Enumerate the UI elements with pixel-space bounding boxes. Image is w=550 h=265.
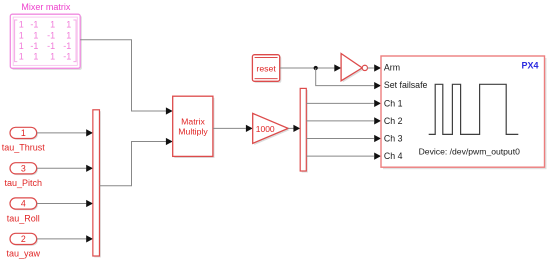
svg-text:Ch 1: Ch 1 bbox=[384, 99, 403, 109]
svg-text:1: 1 bbox=[19, 30, 24, 40]
svg-text:Set failsafe: Set failsafe bbox=[384, 80, 428, 90]
svg-text:1: 1 bbox=[33, 30, 38, 40]
svg-text:Matrix: Matrix bbox=[181, 116, 205, 126]
svg-text:1: 1 bbox=[21, 128, 26, 138]
svg-text:-1: -1 bbox=[30, 20, 38, 30]
svg-text:4: 4 bbox=[21, 199, 26, 209]
svg-text:-1: -1 bbox=[30, 41, 38, 51]
svg-text:PX4: PX4 bbox=[521, 61, 538, 71]
svg-text:tau_Thrust: tau_Thrust bbox=[2, 143, 46, 153]
svg-text:Device: /dev/pwm_output0: Device: /dev/pwm_output0 bbox=[419, 146, 520, 156]
svg-text:-1: -1 bbox=[63, 41, 71, 51]
svg-text:Ch 2: Ch 2 bbox=[384, 116, 403, 126]
svg-text:Multiply: Multiply bbox=[178, 126, 208, 136]
svg-text:tau_Roll: tau_Roll bbox=[7, 213, 40, 223]
svg-text:1: 1 bbox=[50, 20, 55, 30]
svg-text:Arm: Arm bbox=[384, 62, 400, 72]
svg-text:1: 1 bbox=[50, 51, 55, 61]
svg-text:tau_yaw: tau_yaw bbox=[7, 249, 41, 259]
svg-text:1: 1 bbox=[66, 20, 71, 30]
svg-text:1000: 1000 bbox=[256, 124, 275, 134]
svg-text:tau_Pitch: tau_Pitch bbox=[5, 178, 43, 188]
svg-text:1: 1 bbox=[19, 20, 24, 30]
svg-text:1: 1 bbox=[19, 51, 24, 61]
svg-text:reset: reset bbox=[256, 63, 276, 73]
svg-text:Ch 4: Ch 4 bbox=[384, 151, 403, 161]
svg-text:Ch 3: Ch 3 bbox=[384, 134, 403, 144]
svg-text:-1: -1 bbox=[47, 30, 55, 40]
svg-text:3: 3 bbox=[21, 164, 26, 174]
svg-text:-1: -1 bbox=[63, 51, 71, 61]
svg-text:-1: -1 bbox=[47, 41, 55, 51]
svg-text:1: 1 bbox=[19, 41, 24, 51]
svg-text:1: 1 bbox=[66, 30, 71, 40]
svg-text:2: 2 bbox=[21, 234, 26, 244]
svg-text:1: 1 bbox=[33, 51, 38, 61]
svg-text:Mixer matrix: Mixer matrix bbox=[21, 2, 70, 12]
